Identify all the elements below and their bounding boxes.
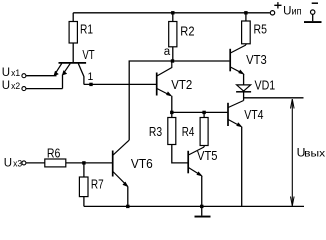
svg-text:VT6: VT6 (131, 156, 153, 171)
svg-text:VT3: VT3 (246, 52, 267, 67)
svg-text:R3: R3 (149, 124, 162, 139)
svg-text:R5: R5 (254, 22, 267, 37)
node a (164, 46, 174, 63)
diode VD1 (236, 78, 275, 101)
wire top supply rail (73, 12, 270, 14)
ground (195, 205, 211, 218)
wire bottom rail (84, 205, 304, 208)
svg-text:U: U (2, 67, 10, 79)
input terminal Ux3 (4, 157, 45, 169)
resistor R1 (69, 13, 93, 63)
transistor VT5 (188, 147, 217, 206)
resistor R6 (45, 145, 112, 167)
transistor VT3 (230, 45, 267, 85)
transistor VT (dual-emitter input) (54, 47, 95, 88)
svg-text:R1: R1 (80, 22, 93, 37)
svg-text:а: а (164, 46, 171, 58)
wire node a to VT6 collector (left branch) (129, 61, 172, 140)
input terminal Ux1 (2, 67, 57, 79)
wire rail y112 (VT2 emitter to VT4 base) (172, 111, 228, 113)
input terminal Ux2 (2, 80, 63, 92)
transistor VT2 (157, 61, 193, 112)
svg-text:1: 1 (88, 71, 94, 83)
wire node1 to VT2 base (84, 83, 156, 85)
svg-text:VT5: VT5 (197, 148, 218, 163)
svg-text:VT4: VT4 (244, 107, 263, 122)
power terminal + (Uip) (270, 2, 301, 17)
svg-text:х2: х2 (11, 81, 20, 92)
resistor R2 (169, 11, 195, 61)
wire node a to VT3 base (right branch) (173, 60, 230, 62)
svg-text:R2: R2 (180, 23, 194, 38)
resistor R5 (242, 11, 267, 45)
node 1 (88, 71, 94, 86)
transistor VT4 (228, 101, 264, 207)
svg-text:U: U (4, 157, 12, 169)
svg-text:ип: ип (292, 6, 302, 17)
svg-text:R4: R4 (182, 124, 195, 139)
svg-text:U: U (2, 80, 10, 92)
svg-text:х1: х1 (11, 68, 20, 79)
svg-text:х3: х3 (13, 158, 22, 169)
transistor VT6 (113, 140, 153, 206)
wire output node (244, 97, 304, 99)
resistor R4 (182, 111, 208, 147)
output dimension arrow Uvyh (291, 99, 326, 206)
svg-text:U: U (283, 5, 291, 17)
svg-text:R6: R6 (47, 145, 61, 160)
svg-text:вых: вых (304, 148, 326, 160)
svg-text:VT: VT (82, 47, 94, 62)
resistor R3 (149, 111, 188, 163)
svg-text:VT2: VT2 (171, 77, 192, 92)
svg-text:VD1: VD1 (255, 78, 276, 93)
resistor R7 (79, 161, 103, 206)
svg-text:R7: R7 (91, 177, 104, 192)
power terminal - (Uip minus, grounded) (304, 3, 322, 23)
